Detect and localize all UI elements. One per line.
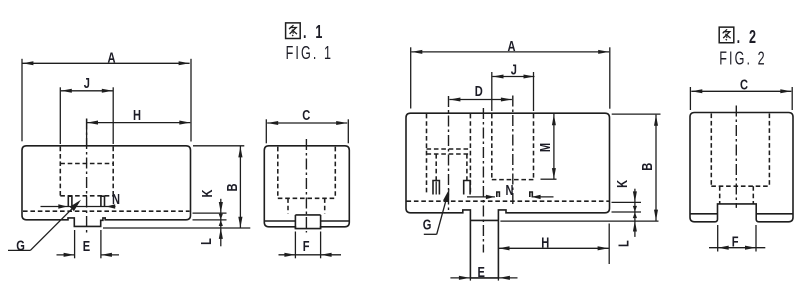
svg-text:J: J xyxy=(84,74,90,91)
svg-text:G: G xyxy=(16,237,25,254)
svg-text:D: D xyxy=(475,82,483,99)
svg-text:M: M xyxy=(536,143,553,152)
svg-text:A: A xyxy=(107,49,115,66)
svg-text:E: E xyxy=(477,263,485,280)
svg-text:E: E xyxy=(83,237,91,254)
svg-text:F: F xyxy=(732,233,739,250)
svg-text:. 2: . 2 xyxy=(737,28,759,48)
svg-text:K: K xyxy=(198,189,215,197)
svg-text:C: C xyxy=(740,76,748,93)
svg-text:C: C xyxy=(302,106,310,123)
svg-text:B: B xyxy=(638,163,655,171)
svg-text:J: J xyxy=(511,61,517,78)
svg-text:K: K xyxy=(613,179,630,187)
svg-text:N: N xyxy=(112,190,120,207)
svg-text:. 1: . 1 xyxy=(303,23,325,43)
svg-text:H: H xyxy=(133,107,141,124)
svg-text:L: L xyxy=(198,238,215,245)
svg-text:N: N xyxy=(505,181,513,198)
svg-text:A: A xyxy=(507,37,515,54)
svg-text:FIG. 1: FIG. 1 xyxy=(286,44,334,64)
svg-text:FIG. 2: FIG. 2 xyxy=(719,49,767,69)
svg-text:B: B xyxy=(223,183,240,191)
svg-text:G: G xyxy=(423,216,432,233)
svg-text:F: F xyxy=(303,237,310,254)
svg-text:H: H xyxy=(541,234,549,251)
svg-text:L: L xyxy=(615,240,632,247)
